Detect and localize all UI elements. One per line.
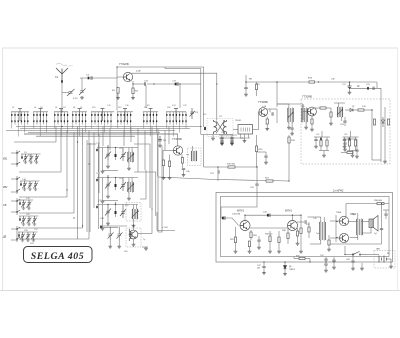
ground KV2-2 <box>28 188 31 191</box>
coil group L12 L13 top bar <box>117 111 133 113</box>
wire drop to bus <box>14 122 16 124</box>
ground KV1-1 <box>24 161 27 164</box>
wire <box>344 117 346 121</box>
trimmer capacitor of group L4 L5 <box>39 108 43 110</box>
junction <box>82 225 83 226</box>
core adjust arrows L19 <box>216 121 225 134</box>
trimmer capacitor KV1-1 <box>23 154 28 161</box>
wire <box>300 234 302 251</box>
svg-text:в УНЧ: в УНЧ <box>162 227 168 229</box>
battery dashed box GB1 <box>374 251 395 269</box>
wire winding top a <box>132 205 134 210</box>
wire stage A link <box>87 143 96 145</box>
IF transformer C <box>132 209 138 219</box>
wire Tr1 top b <box>323 217 325 222</box>
wire R20 feed <box>256 135 258 146</box>
wire to AF riser <box>151 208 153 234</box>
wire <box>21 154 23 156</box>
capacitor C10 <box>145 82 146 85</box>
stage feed vertical wire <box>164 131 166 151</box>
wire to filter <box>233 129 238 131</box>
wire Tr1 bottom <box>320 240 322 244</box>
capacitor C blk2 <box>96 206 98 208</box>
trimmer capacitor PV-2 <box>27 216 32 223</box>
ground below C40 <box>264 161 268 164</box>
resistor R28 <box>269 236 271 242</box>
wire antenna stem <box>61 83 63 111</box>
junction <box>276 81 277 82</box>
svg-text:МП41: МП41 <box>285 209 292 213</box>
switch ДВ contact a <box>16 227 20 229</box>
coil group L6 L7 top bar <box>54 111 68 113</box>
stage feed vertical wire <box>109 129 111 151</box>
wire <box>333 257 335 260</box>
trimmer stem L6 L7 <box>60 109 62 121</box>
capacitor C47 <box>262 267 265 268</box>
ground stage A <box>127 167 131 170</box>
wire input path <box>221 193 257 219</box>
wire <box>231 135 233 138</box>
ground below T4 <box>310 128 314 131</box>
capacitor C18 blk <box>204 127 206 130</box>
wire <box>344 139 346 143</box>
coil tap column of L4 L5 <box>33 112 35 114</box>
junction <box>200 126 201 127</box>
junction <box>263 261 264 262</box>
scan page edge right <box>397 48 399 290</box>
screen can dashed stage C coil <box>126 203 141 222</box>
wire staircase 2 <box>134 172 156 216</box>
coil group L16 L17 top bar <box>166 111 186 113</box>
capacitor C43 <box>224 216 225 219</box>
wire drop to bus <box>91 122 93 128</box>
trimmer capacitor Ab <box>120 148 126 162</box>
wire drop to bus <box>67 122 69 132</box>
ground stage B screen <box>101 200 105 203</box>
band switch section КВ2 <box>16 176 18 194</box>
wire T4 base <box>303 111 308 113</box>
wire drop to bus <box>117 122 119 128</box>
junction rail R14 <box>318 81 319 82</box>
junction <box>16 191 17 192</box>
wire <box>115 157 117 160</box>
bus vertical wire <box>73 133 75 214</box>
coil tap column of L6 L7 <box>54 112 56 114</box>
wire <box>349 146 351 151</box>
ground below D3 <box>283 273 287 276</box>
svg-text:2х МП42: 2х МП42 <box>332 188 344 192</box>
resistor R37 <box>328 240 330 245</box>
switch ДВ contact b <box>16 237 20 239</box>
coil tap column of L6 L7 <box>60 112 62 114</box>
wire T5 emitter <box>250 230 252 232</box>
svg-text:ПЗМ-2: ПЗМ-2 <box>289 269 296 271</box>
ground DV-2 <box>26 239 29 242</box>
svg-text:П38А: П38А <box>336 211 342 214</box>
wire <box>107 217 109 222</box>
wire <box>249 247 251 250</box>
wire drop to bus <box>54 122 56 128</box>
wire <box>344 246 346 255</box>
wire <box>277 103 289 105</box>
coil group L4 L5 top bar <box>33 111 48 113</box>
coil tap column of L14 L15 <box>146 112 148 114</box>
wire stage B left screen <box>97 174 99 202</box>
coil tap column of L14 L15 <box>149 112 151 114</box>
wire DV row lower <box>19 238 89 240</box>
wire <box>265 152 267 156</box>
output transformer Tr2 <box>357 219 363 235</box>
capacitor C44 body <box>267 214 269 217</box>
wire <box>231 138 233 140</box>
junction <box>309 261 310 262</box>
wire <box>326 137 328 140</box>
wire <box>297 236 299 242</box>
junction <box>107 147 108 148</box>
wire PV row <box>19 212 74 214</box>
wire winding top a <box>128 178 130 183</box>
junction <box>107 175 108 176</box>
wire <box>269 242 271 250</box>
wire <box>142 246 148 248</box>
trimmer capacitor PV-3 <box>32 216 37 223</box>
wire drop to bus <box>27 122 29 124</box>
resistor R24 <box>300 228 302 234</box>
coil tap column of L8 L9 <box>78 112 80 114</box>
wire drop to bus <box>146 122 148 124</box>
wire IF load 1 bottom <box>319 150 329 152</box>
trimmer capacitor DV-2 <box>26 232 31 239</box>
wire T2 left screen <box>157 134 159 177</box>
diode D1 detector <box>350 109 353 112</box>
ground PV-2 <box>27 223 30 226</box>
ground below R37 <box>327 248 331 251</box>
coil tap column of L2 L3 <box>27 112 29 114</box>
capacitor C36a <box>220 138 223 139</box>
trimmer capacitor of group L8 L9 <box>78 108 82 110</box>
trimmer capacitor SV-2 <box>27 200 32 207</box>
coil tap column of L16 L17 <box>172 112 174 114</box>
wire DV cluster top <box>18 231 38 233</box>
ground KV2-1 <box>23 188 26 191</box>
IF transformer A <box>128 152 134 162</box>
wire AGC lower <box>158 177 216 180</box>
wire drop to bus <box>172 122 174 136</box>
resistor IF load 1a <box>320 140 322 146</box>
stage feed vertical wire <box>130 127 132 143</box>
wire <box>344 122 346 126</box>
junction <box>256 166 257 167</box>
wire KV2 cluster top <box>20 180 40 182</box>
wire <box>383 209 389 211</box>
svg-text:ГТ309Б: ГТ309Б <box>258 100 268 104</box>
wire IF load 2 feed <box>350 131 352 137</box>
wire drop to bus <box>152 122 154 124</box>
core adjust arrow <box>288 112 294 118</box>
junction <box>116 66 117 67</box>
wire output bases <box>335 215 337 242</box>
mixer transformer L19 left winding <box>214 120 217 134</box>
resistor R9 <box>266 119 268 124</box>
wire <box>325 260 327 264</box>
junction <box>115 147 116 148</box>
coil tap column of L16 L17 <box>179 112 181 114</box>
junction <box>349 88 350 89</box>
wire <box>278 243 280 250</box>
wire right vertical a <box>384 107 386 160</box>
junction <box>16 211 17 212</box>
junction <box>16 178 17 179</box>
wire input tap <box>81 78 83 90</box>
junction <box>16 200 17 201</box>
ground stage D c <box>132 243 136 246</box>
transistor T4 ГТ309В <box>308 107 317 116</box>
stage feed vertical wire <box>168 127 170 145</box>
junction <box>77 141 78 142</box>
ground DV-3 <box>32 239 35 242</box>
ground <box>220 141 224 144</box>
capacitor C17 <box>175 83 177 86</box>
coil tap column of L4 L5 <box>46 112 48 114</box>
bus wire 2 <box>20 128 190 130</box>
ground below C22 <box>348 91 352 94</box>
resistor R19 <box>228 166 235 168</box>
resistor R19a <box>373 119 375 125</box>
capacitor KV2 blk <box>20 183 22 185</box>
capacitor C23 <box>367 87 369 90</box>
coil tap column of L6 L7 <box>57 112 59 114</box>
IF transformer L23 <box>288 108 294 122</box>
wire stage D top <box>100 225 127 227</box>
coil tap column of L2 L3 <box>24 112 26 114</box>
wire stub <box>11 191 16 193</box>
wire supply rail B <box>315 81 377 83</box>
resistor R16a <box>330 112 332 117</box>
wire drop to bus <box>149 122 151 136</box>
wire T2 base <box>163 149 173 151</box>
ground filter pin <box>243 140 247 143</box>
coil tap column of L4 L5 <box>36 112 38 114</box>
wire <box>117 93 119 96</box>
wire to T5 base <box>229 218 239 226</box>
bus wire 3 <box>6 130 175 132</box>
trimmer capacitor of group L14 L15 <box>149 108 153 110</box>
wire <box>276 109 278 123</box>
wire <box>133 239 135 243</box>
wire T3 emitter <box>266 117 268 120</box>
wire <box>19 216 21 218</box>
junction <box>107 177 108 178</box>
coil tap column of L12 L13 <box>126 112 128 114</box>
ground below C2 <box>80 96 84 99</box>
wire <box>266 124 268 128</box>
junction <box>115 177 116 178</box>
wire small bus <box>219 134 237 136</box>
wire Tr1 top a <box>320 217 322 222</box>
wire drop to bus <box>175 122 177 124</box>
ground <box>230 143 234 146</box>
capacitor C17 plates <box>177 82 178 85</box>
junction <box>292 215 293 216</box>
junction on oscillator wire <box>153 83 154 84</box>
wire <box>325 265 327 269</box>
wire <box>302 104 304 108</box>
wire stub <box>11 178 16 180</box>
ground below R3 <box>131 97 135 100</box>
ground below C47 <box>262 272 266 275</box>
ground below C44 <box>257 246 261 249</box>
wire <box>288 122 290 126</box>
wire <box>385 215 387 219</box>
bus vertical wire <box>66 131 68 198</box>
junction <box>115 202 116 203</box>
svg-text:SELGA 405: SELGA 405 <box>31 251 85 262</box>
wire T2 emitter <box>181 155 183 158</box>
coil tap column of L12 L13 <box>117 112 119 114</box>
wire drop to bus <box>94 122 96 124</box>
wire <box>284 262 286 266</box>
capacitor C37 <box>218 170 219 173</box>
wire bottom link <box>372 159 381 161</box>
wire <box>356 151 358 155</box>
ground switch <box>360 267 364 270</box>
coil tap column of L10 L11 <box>91 112 93 114</box>
wire <box>18 232 20 234</box>
coil tap column of L2 L3 <box>17 112 19 114</box>
ground stage D b <box>117 245 121 248</box>
core adjust arrow <box>127 154 134 161</box>
scan page edge bottom <box>0 290 400 292</box>
wire <box>115 148 117 155</box>
ground stage D d <box>144 247 148 250</box>
wire <box>231 139 233 141</box>
antenna W1 <box>56 68 68 81</box>
coil group L14 L15 top bar <box>143 111 158 113</box>
junction <box>16 152 17 153</box>
wire Tr2 top <box>357 213 359 219</box>
wire stage C left inner <box>102 205 104 228</box>
wire filter line <box>350 87 382 89</box>
resistor R21 <box>266 180 273 182</box>
wire drop to bus <box>110 122 112 128</box>
resistor R18 <box>358 109 364 111</box>
capacitor C35 <box>230 140 233 141</box>
wire <box>133 226 135 230</box>
coil tap column of L14 L15 <box>152 112 154 114</box>
svg-text:R19 180: R19 180 <box>227 164 236 166</box>
ground KV1-2 <box>29 161 32 164</box>
wire <box>315 141 317 145</box>
capacitor C3 <box>88 77 90 80</box>
capacitor C9 tuning <box>190 108 196 119</box>
band switch section СВ <box>16 198 18 215</box>
trimmer capacitor PV-1 <box>21 216 26 223</box>
wire <box>109 240 111 245</box>
electrolytic capacitor C31 <box>158 136 162 141</box>
resistor R3 <box>132 88 134 94</box>
capacitor B blk <box>115 184 117 187</box>
wire <box>115 187 117 190</box>
coil tap column of L12 L13 <box>120 112 122 114</box>
wire stage D out <box>138 233 152 235</box>
svg-text:ДВ: ДВ <box>2 236 7 239</box>
trimmer capacitor Cb <box>120 205 126 219</box>
wire IF load 1 top <box>314 136 330 138</box>
wire interstage rail <box>245 214 301 216</box>
wire <box>310 243 321 245</box>
trimmer capacitor of group L2 L3 <box>18 108 22 110</box>
svg-text:2М: 2М <box>257 268 260 270</box>
resistor IF load 2a <box>348 140 350 146</box>
wire to C1 <box>62 91 69 93</box>
resistor R16 <box>288 137 290 143</box>
wire oscillator feedback drop <box>179 84 181 108</box>
wire IF load 2 top <box>343 136 359 138</box>
wire <box>349 137 351 140</box>
wire <box>181 163 183 168</box>
trimmer capacitor SV-1 <box>21 200 26 207</box>
wire KV1 row <box>14 141 56 143</box>
trimmer capacitor Bb <box>120 178 126 192</box>
capacitor C24 <box>343 121 346 122</box>
ground <box>329 122 333 125</box>
ground below R10 <box>162 177 166 180</box>
wire winding top b <box>131 178 133 183</box>
junction <box>371 109 372 110</box>
wire drop to bus <box>20 122 22 124</box>
wire <box>330 220 339 222</box>
ground L23 <box>287 126 291 129</box>
coil tap column of L8 L9 <box>72 112 74 114</box>
wire stage B left inner <box>102 178 104 201</box>
wire drop to bus <box>182 122 184 124</box>
junction <box>284 261 285 262</box>
wire <box>159 141 161 144</box>
wire C1 lead <box>68 91 70 94</box>
ground stage D a <box>108 245 112 248</box>
junction <box>381 203 382 204</box>
wire <box>355 137 357 140</box>
ground stage C trimmer <box>106 222 110 225</box>
wire stage C top <box>97 204 138 206</box>
ground below C39 <box>290 132 294 135</box>
wire T5 collector <box>244 215 246 220</box>
electrolytic capacitor C22 <box>348 82 352 87</box>
ground <box>230 141 234 144</box>
wire stage A left screen <box>97 144 99 172</box>
wire <box>343 138 357 140</box>
bus vertical wire <box>93 133 95 209</box>
coil group L2 L3 top bar <box>11 111 29 113</box>
wire <box>163 166 165 177</box>
transistor T3 ГТ309Б <box>259 108 268 117</box>
wire drop to mixer left <box>200 69 202 135</box>
wire stub <box>11 239 16 241</box>
coil tap column of L12 L13 <box>123 112 125 114</box>
wire drop to bus <box>39 122 41 136</box>
wire <box>352 262 354 267</box>
scan page edge left <box>1 48 3 290</box>
wire <box>352 255 354 261</box>
resistor R11 <box>169 161 171 167</box>
bus wire 6 <box>36 135 135 137</box>
svg-text:4,2В: 4,2В <box>136 71 141 73</box>
stage feed vertical wire <box>151 127 153 211</box>
piezo filter Z1 ПФ1П box <box>238 125 253 135</box>
coil group L8 L9 top bar <box>72 111 87 113</box>
wire <box>245 75 247 82</box>
junction <box>66 189 67 190</box>
